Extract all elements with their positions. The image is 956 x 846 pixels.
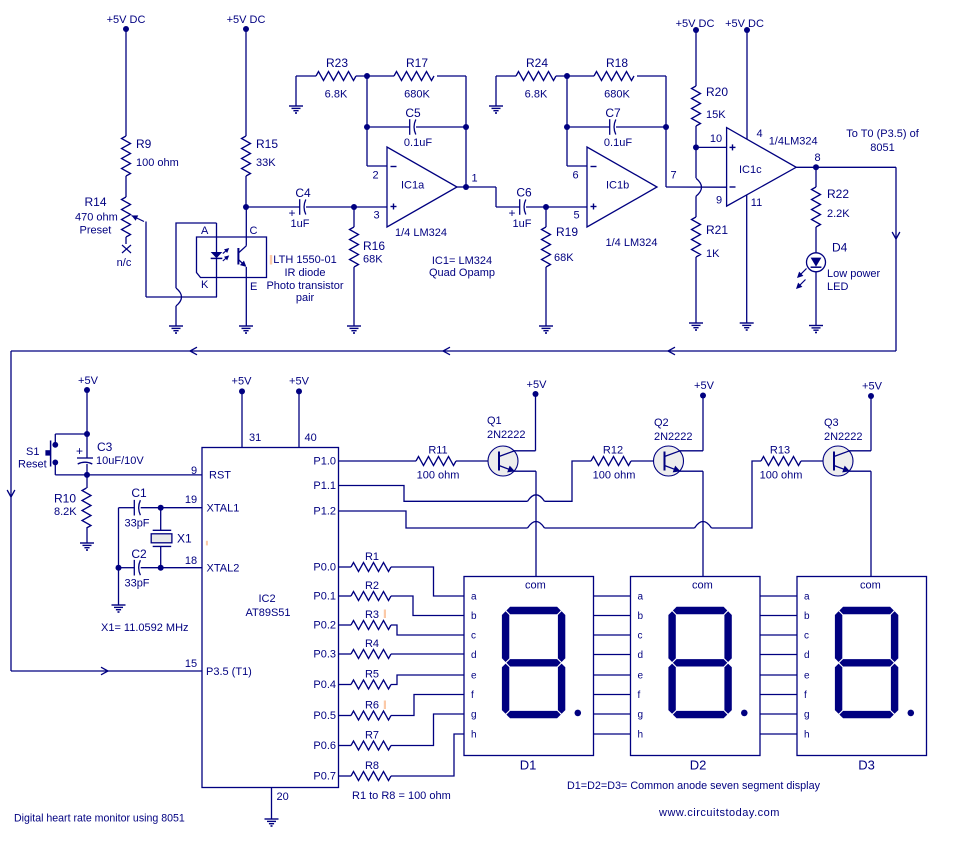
svg-text:RST: RST [209, 470, 231, 482]
IC1a pin numbers 2 3 1 [372, 170, 477, 222]
wire R11 to Q1 base [456, 460, 499, 462]
svg-text:6.8K: 6.8K [525, 89, 548, 101]
ground at R23 [289, 106, 303, 113]
wire C2 to XTAL2 [141, 565, 202, 571]
svg-text:P3.5 (T1): P3.5 (T1) [206, 666, 252, 678]
svg-text:C5: C5 [405, 106, 421, 120]
svg-text:D1=D2=D3= Common anode seven s: D1=D2=D3= Common anode seven segment dis… [567, 780, 821, 792]
ground under photo transistor [239, 326, 253, 333]
transistor Q1 2N2222 [488, 446, 518, 476]
power +5V pin 31 [232, 376, 262, 448]
seven segment display D1 [464, 577, 594, 773]
wire P1.1 to R12 [339, 461, 592, 501]
svg-text:2.2K: 2.2K [827, 208, 850, 220]
wire C5 row [367, 126, 466, 128]
svg-text:6: 6 [572, 170, 578, 182]
resistor R12 100 ohm [591, 445, 635, 482]
transistor Q2 2N2222 [654, 446, 684, 476]
wire IC1b inverting column [566, 76, 568, 166]
S1 labels [18, 446, 47, 471]
wire C1 left [119, 507, 135, 509]
junction R24/R18/C7 [564, 73, 570, 79]
power +5V DC node 4 pin4 [725, 18, 764, 139]
svg-text:31: 31 [249, 432, 261, 444]
resistor R10 body [82, 475, 91, 543]
svg-text:1K: 1K [706, 248, 720, 260]
resistor R2 100 ohm [339, 580, 465, 616]
junctions C7 [564, 124, 669, 130]
power +5V pin 40 [289, 376, 317, 448]
wire P1.0 to R11 [339, 460, 417, 462]
svg-text:33pF: 33pF [124, 518, 149, 530]
return wire top [11, 347, 896, 355]
resistor R6 100 ohm [339, 695, 465, 721]
svg-text:com: com [860, 580, 881, 592]
svg-text:1/4LM324: 1/4LM324 [769, 136, 818, 148]
capacitor C6 1uF [508, 186, 532, 231]
svg-text:com: com [525, 580, 546, 592]
resistor R5 100 ohm [339, 669, 465, 690]
svg-text:f: f [471, 690, 474, 701]
svg-text:8051: 8051 [870, 142, 894, 154]
svg-text:15: 15 [185, 658, 197, 670]
svg-text:R7: R7 [365, 730, 379, 742]
svg-text:R24: R24 [526, 56, 548, 70]
Q2 labels [654, 417, 693, 443]
Q2 emitter to D2 com [680, 471, 704, 576]
svg-text:+5V DC: +5V DC [725, 18, 764, 30]
svg-text:2N2222: 2N2222 [824, 431, 863, 443]
wire pin 11 to ground [746, 195, 748, 323]
resistor R14 470 ohm preset [75, 195, 131, 244]
svg-text:R20: R20 [706, 85, 728, 99]
IC2 name [245, 593, 290, 619]
R10 labels [54, 492, 77, 519]
svg-text:Quad Opamp: Quad Opamp [429, 267, 495, 279]
wire to C3 [86, 434, 88, 458]
svg-text:D1: D1 [520, 758, 537, 773]
svg-text:P0.5: P0.5 [313, 710, 336, 722]
resistor R7 100 ohm [339, 714, 465, 750]
svg-text:K: K [201, 279, 209, 291]
svg-text:R16: R16 [363, 239, 385, 253]
wire R12 to Q2 base [631, 460, 665, 462]
ground wire with hop [176, 288, 182, 326]
svg-text:Low power: Low power [827, 268, 881, 280]
svg-text:b: b [471, 611, 477, 622]
svg-text:P0.6: P0.6 [313, 740, 336, 752]
svg-text:8: 8 [814, 152, 820, 164]
svg-text:10: 10 [710, 133, 722, 145]
wire R20-R21 with hop [696, 147, 702, 217]
junction R20/IC1c+ [693, 126, 699, 150]
svg-text:IC2: IC2 [258, 593, 275, 605]
svg-text:1/4 LM324: 1/4 LM324 [395, 227, 447, 239]
wire to crystal [160, 508, 162, 531]
svg-text:11: 11 [751, 197, 762, 209]
LTH1550 IR diode box [176, 223, 217, 288]
svg-text:Digital heart rate monitor usi: Digital heart rate monitor using 8051 [14, 813, 185, 825]
svg-text:18: 18 [185, 555, 197, 567]
wire to IC1c non-inverting [696, 146, 727, 148]
capacitor C5 0.1uF [404, 106, 432, 149]
svg-text:XTAL1: XTAL1 [207, 503, 240, 515]
svg-text:Reset: Reset [18, 459, 47, 471]
power +5V DC node 2 [227, 14, 266, 136]
ground at R21 [689, 323, 703, 330]
wire R24 to ground [496, 76, 516, 106]
IC1a part label [395, 227, 447, 239]
svg-text:100 ohm: 100 ohm [760, 470, 803, 482]
svg-text:+5V: +5V [78, 375, 99, 387]
svg-text:P1.2: P1.2 [313, 506, 336, 518]
op-amp IC1b [587, 147, 657, 227]
R14 wiper arrow [130, 213, 144, 222]
wires D2 to D3 segments [760, 596, 797, 734]
IC2 right pin names [313, 456, 336, 783]
svg-text:h: h [804, 730, 810, 741]
n/c mark [117, 245, 132, 269]
return wire left edge [7, 351, 15, 671]
svg-text:E: E [250, 281, 257, 293]
svg-text:R19: R19 [556, 225, 578, 239]
svg-text:C2: C2 [131, 547, 147, 561]
svg-text:20: 20 [277, 791, 289, 803]
ground at R10 [80, 543, 94, 550]
svg-text:IC1b: IC1b [606, 180, 629, 192]
wire R21 to ground [695, 257, 697, 323]
capacitor C2 33pF [124, 547, 149, 590]
transistor Q3 2N2222 [823, 446, 853, 476]
wire R24 to R18 [556, 75, 594, 77]
wire C7 row [567, 126, 666, 128]
resistor R9 100 ohm [122, 136, 179, 176]
svg-text:D3: D3 [858, 758, 875, 773]
svg-text:680K: 680K [404, 89, 430, 101]
svg-text:R23: R23 [326, 56, 348, 70]
svg-text:R1 to R8 = 100 ohm: R1 to R8 = 100 ohm [352, 790, 451, 802]
pin 15 number [185, 658, 197, 670]
wire R18 to output [637, 76, 666, 187]
wire R19 leads [545, 207, 547, 326]
svg-text:Q2: Q2 [654, 417, 669, 429]
X1 label [177, 532, 192, 546]
svg-text:100 ohm: 100 ohm [593, 470, 636, 482]
svg-text:R12: R12 [603, 445, 623, 457]
wire C6 to IC1b non-inverting [526, 204, 587, 210]
resistor R23 6.8K [316, 56, 356, 101]
svg-text:P0.2: P0.2 [313, 620, 336, 632]
ground at pin 11 [740, 323, 754, 330]
svg-text:d: d [471, 650, 477, 661]
svg-text:f: f [638, 690, 641, 701]
Q1 emitter to D1 com [514, 471, 536, 576]
resistor R20 15K [692, 85, 729, 126]
svg-text:15K: 15K [706, 109, 726, 121]
svg-text:R21: R21 [706, 223, 728, 237]
svg-text:P0.0: P0.0 [313, 562, 336, 574]
junction R23/R17/C5 [364, 73, 370, 79]
wire C1/C2 left column [116, 508, 122, 571]
svg-text:Q3: Q3 [824, 417, 839, 429]
svg-text:100 ohm: 100 ohm [136, 157, 179, 169]
seven segment display D3 [797, 577, 927, 773]
svg-text:68K: 68K [363, 254, 383, 266]
IC1b pin numbers 6 5 7 [572, 170, 676, 222]
svg-text:+5V: +5V [694, 380, 715, 392]
svg-text:a: a [804, 592, 810, 603]
svg-text:P0.4: P0.4 [313, 679, 336, 691]
svg-text:P1.1: P1.1 [313, 480, 336, 492]
svg-text:R13: R13 [770, 445, 790, 457]
LTH1550 pin labels [201, 225, 258, 293]
wire S1 bottom [55, 474, 87, 476]
svg-text:1uF: 1uF [513, 218, 532, 230]
wire node to C4 [246, 206, 300, 208]
wire R13 to Q3 base [801, 460, 834, 462]
resistor R15 33K [242, 136, 279, 176]
wire C1 to XTAL1 [141, 505, 202, 511]
svg-text:68K: 68K [554, 252, 574, 264]
orange tick R6 [384, 701, 386, 710]
svg-text:LED: LED [827, 281, 848, 293]
ground under IR diode [169, 326, 183, 333]
op-amp IC1c [727, 128, 797, 207]
svg-text:2N2222: 2N2222 [487, 429, 526, 441]
svg-text:Q1: Q1 [487, 415, 502, 427]
svg-text:+5V DC: +5V DC [227, 14, 266, 26]
ground at R24 [489, 106, 503, 113]
capacitor C1 33pF [124, 486, 149, 530]
To T0 note [846, 128, 919, 154]
wire R9 to R14 [125, 176, 127, 197]
svg-text:C6: C6 [516, 186, 532, 200]
ground at pin 20 [265, 819, 279, 826]
ground at C1/C2 [112, 605, 126, 612]
D4 labels [827, 241, 881, 294]
svg-text:R22: R22 [827, 187, 849, 201]
capacitor C7 0.1uF [604, 106, 632, 149]
IC1 note text [429, 255, 495, 279]
Q3 labels [824, 417, 863, 443]
wires D1 to D2 segments [594, 596, 631, 734]
wire R23 to ground [296, 76, 316, 106]
capacitor C3 10uF/10V [76, 440, 144, 467]
svg-text:33pF: 33pF [124, 578, 149, 590]
orange tick [270, 255, 272, 265]
svg-text:IC1= LM324: IC1= LM324 [432, 255, 492, 267]
svg-text:pair: pair [296, 292, 315, 304]
resistor R22 2.2K [812, 187, 851, 227]
Q3 collector to +5V [849, 381, 883, 451]
wire IC1a out to C6 [457, 184, 520, 207]
wire C2 left [119, 567, 135, 569]
power +5V DC node 1 [107, 14, 146, 136]
resistor R1 100 ohm [339, 551, 465, 596]
LTH1550 photo transistor box [197, 237, 267, 278]
IR light arrows [223, 246, 231, 261]
svg-text:Preset: Preset [80, 225, 112, 237]
svg-text:40: 40 [305, 432, 317, 444]
svg-text:470 ohm: 470 ohm [75, 212, 118, 224]
junction C3/RST [84, 464, 90, 478]
power +5V reset node [78, 375, 99, 437]
resistor R21 1K [692, 217, 729, 260]
svg-text:+5V: +5V [527, 379, 548, 391]
svg-text:IC1c: IC1c [739, 164, 762, 176]
svg-text:R1: R1 [365, 551, 379, 563]
power +5V DC node 3 [676, 18, 715, 86]
wire to P3.5 [11, 667, 202, 675]
svg-text:LTH 1550-01: LTH 1550-01 [273, 254, 336, 266]
ground at R19 [539, 326, 553, 333]
Q3 emitter to D3 com [849, 471, 871, 576]
svg-text:g: g [638, 710, 644, 721]
crystal frequency note [101, 622, 189, 634]
svg-text:P0.7: P0.7 [313, 771, 336, 783]
wire R14 wiper down [145, 222, 147, 298]
R1-R8 note [352, 790, 451, 802]
svg-text:1uF: 1uF [291, 218, 310, 230]
wire to IC1a inverting input [367, 165, 387, 167]
svg-text:2: 2 [372, 170, 378, 182]
svg-text:P1.0: P1.0 [313, 456, 336, 468]
resistor R4 100 ohm [339, 638, 465, 659]
capacitor C4 1uF [288, 186, 311, 230]
wire R23 to R17 [356, 75, 394, 77]
wire RST [87, 474, 202, 476]
svg-text:+5V DC: +5V DC [107, 14, 146, 26]
svg-text:X1= 11.0592 MHz: X1= 11.0592 MHz [101, 622, 189, 634]
svg-text:10uF/10V: 10uF/10V [96, 455, 144, 467]
resistor R17 680K [394, 56, 434, 101]
svg-text:C7: C7 [605, 106, 621, 120]
svg-text:a: a [471, 592, 477, 603]
display note [567, 780, 821, 792]
svg-text:C: C [250, 225, 258, 237]
svg-text:1/4 LM324: 1/4 LM324 [606, 237, 658, 249]
svg-text:d: d [804, 650, 810, 661]
svg-text:g: g [471, 710, 477, 721]
wire R16 leads [353, 207, 355, 326]
svg-text:d: d [638, 650, 644, 661]
svg-text:c: c [471, 631, 476, 642]
junction R15/C4/collector [243, 204, 249, 210]
svg-text:+5V: +5V [289, 376, 310, 388]
svg-text:D4: D4 [832, 241, 848, 255]
pin 18 number [185, 555, 197, 567]
IR LED of LTH1550 [211, 223, 223, 297]
svg-text:D2: D2 [690, 758, 707, 773]
svg-text:www.circuitstoday.com: www.circuitstoday.com [658, 807, 780, 819]
wire to IC1b inverting input [567, 165, 587, 167]
orange tick X1 [206, 541, 208, 546]
IC1c part label [769, 136, 818, 148]
svg-text:R18: R18 [606, 56, 628, 70]
svg-text:com: com [692, 580, 713, 592]
svg-text:c: c [638, 631, 643, 642]
svg-text:1: 1 [471, 173, 477, 185]
wire IC1c output [796, 164, 896, 170]
Q1 collector to +5V [514, 379, 548, 451]
svg-text:A: A [201, 225, 209, 237]
website text [658, 807, 780, 819]
title text [14, 813, 185, 825]
junctions C5 [364, 124, 469, 130]
svg-text:R15: R15 [256, 137, 278, 151]
photo transistor symbol [238, 207, 248, 326]
svg-text:R8: R8 [365, 760, 379, 772]
svg-text:a: a [638, 592, 644, 603]
wire C4 to IC1a non-inverting [306, 204, 387, 210]
svg-text:0.1uF: 0.1uF [404, 137, 432, 149]
svg-text:+: + [76, 444, 83, 458]
svg-text:R2: R2 [365, 580, 379, 592]
ground at R16 [347, 326, 361, 333]
wire output down right edge [892, 167, 900, 351]
pin 20 wire [272, 788, 289, 820]
svg-text:XTAL2: XTAL2 [207, 563, 240, 575]
svg-text:680K: 680K [604, 89, 630, 101]
resistor R11 100 ohm [416, 445, 459, 482]
svg-text:9: 9 [716, 195, 722, 207]
svg-text:2N2222: 2N2222 [654, 431, 693, 443]
wire P1.2 to R13 [339, 461, 762, 528]
svg-text:C1: C1 [131, 486, 147, 500]
LED emission arrows [794, 269, 807, 292]
svg-text:100 ohm: 100 ohm [417, 470, 460, 482]
svg-text:b: b [638, 611, 644, 622]
svg-text:X1: X1 [177, 532, 192, 546]
wire R22 to D4 [815, 227, 817, 253]
Q2 collector to +5V [679, 380, 715, 451]
resistor R24 6.8K [516, 56, 556, 101]
wire to ground [118, 568, 120, 605]
svg-text:3: 3 [373, 210, 379, 222]
Q1 labels [487, 415, 526, 441]
resistor R16 68K [350, 227, 386, 267]
svg-text:C4: C4 [295, 186, 311, 200]
svg-text:R10: R10 [54, 492, 76, 506]
svg-text:g: g [804, 710, 810, 721]
svg-text:0.1uF: 0.1uF [604, 137, 632, 149]
svg-text:AT89S51: AT89S51 [245, 607, 290, 619]
resistor R13 100 ohm [760, 445, 803, 482]
svg-text:c: c [804, 631, 809, 642]
svg-text:8.2K: 8.2K [54, 506, 77, 518]
switch S1 Reset [45, 434, 87, 475]
svg-text:IR diode: IR diode [285, 267, 326, 279]
crystal X1 [151, 530, 172, 567]
svg-text:P0.3: P0.3 [313, 649, 336, 661]
seven segment display D2 [631, 577, 761, 773]
svg-text:R4: R4 [365, 638, 379, 650]
resistor R19 68K [542, 225, 579, 267]
svg-text:S1: S1 [26, 446, 39, 458]
wire R17 to output [437, 76, 466, 187]
wire R15 to node [245, 176, 247, 207]
IC1c pin numbers [710, 128, 821, 209]
svg-text:5: 5 [573, 210, 579, 222]
svg-text:IC1a: IC1a [401, 180, 425, 192]
svg-text:4: 4 [756, 128, 762, 140]
svg-text:R9: R9 [136, 137, 152, 151]
svg-text:R11: R11 [428, 445, 447, 457]
svg-text:33K: 33K [256, 157, 276, 169]
wire wiper to K bottom [146, 296, 217, 298]
svg-text:h: h [638, 730, 644, 741]
resistor R8 100 ohm [339, 734, 465, 781]
